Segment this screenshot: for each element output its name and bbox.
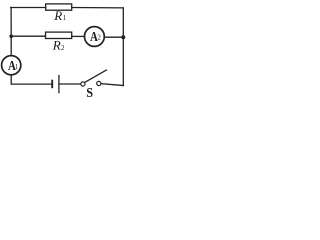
svg-text:R: R <box>52 38 61 53</box>
svg-text:1: 1 <box>15 63 19 71</box>
svg-text:1: 1 <box>63 14 67 22</box>
svg-text:S: S <box>86 84 93 100</box>
svg-text:2: 2 <box>97 34 101 42</box>
svg-text:2: 2 <box>61 44 65 52</box>
svg-text:R: R <box>53 8 62 23</box>
